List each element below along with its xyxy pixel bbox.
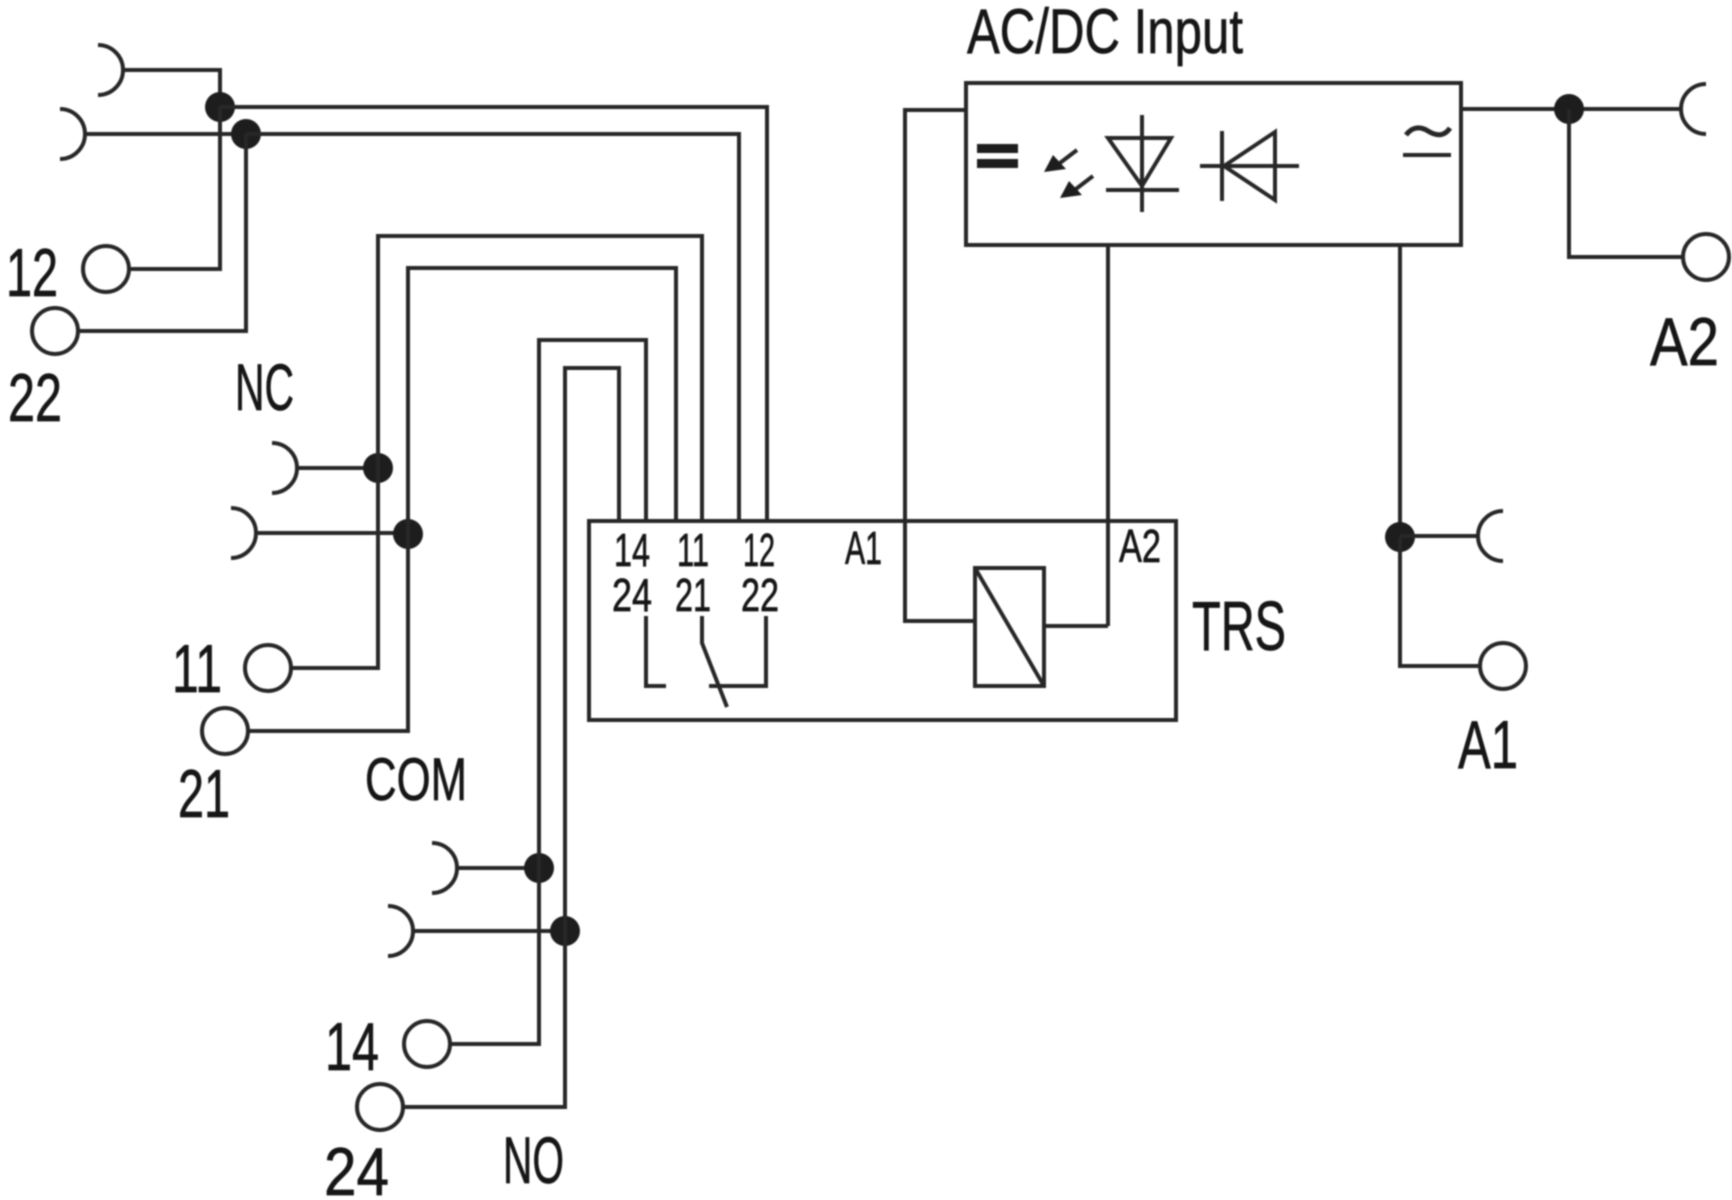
junction J8 bbox=[1385, 522, 1415, 552]
contact stub 24 bbox=[646, 616, 666, 686]
relay coil bbox=[975, 568, 1044, 686]
svg-text:COM: COM bbox=[365, 746, 467, 813]
wire K6 to junction J6 bbox=[412, 929, 558, 933]
wire K3 to junction J3 bbox=[296, 466, 371, 470]
relay module box TRS bbox=[589, 521, 1176, 720]
wire J2 to TRS pin 12 bbox=[246, 134, 739, 521]
terminal ring 24 bbox=[357, 1084, 403, 1130]
wire J1 to terminal 12 bbox=[130, 107, 220, 269]
terminal ring 21 bbox=[202, 708, 248, 754]
wire J6 to TRS pin 14 bbox=[565, 368, 619, 931]
diode D2 cathode bar bbox=[1220, 131, 1224, 201]
wire J5 to TRS pin 24 bbox=[539, 340, 646, 868]
wire K4 to junction J4 bbox=[255, 531, 401, 535]
clamp contact K7 (terminal A2 feed) bbox=[1681, 84, 1706, 134]
terminal ring A2 bbox=[1683, 234, 1729, 280]
svg-text:A1: A1 bbox=[1458, 707, 1518, 783]
junction J4 bbox=[393, 519, 423, 549]
clamp contact K2 (feed to terminal 22) bbox=[60, 109, 85, 159]
terminal ring 12 bbox=[83, 246, 129, 292]
clamp contact K5 (feed to terminal 14) bbox=[432, 843, 457, 893]
svg-text:NO: NO bbox=[503, 1123, 564, 1197]
clamp contact K6 (feed to terminal 24) bbox=[388, 906, 413, 956]
wire input box to A2 riser bbox=[1106, 245, 1110, 626]
wire J6 to terminal 24 bbox=[404, 931, 565, 1107]
junction J7 bbox=[1554, 94, 1584, 124]
AC symbol tilde bbox=[1406, 128, 1450, 135]
wire J3 to terminal 11 bbox=[291, 468, 378, 668]
svg-text:22: 22 bbox=[741, 569, 779, 621]
svg-text:14: 14 bbox=[325, 1009, 379, 1085]
svg-text:24: 24 bbox=[612, 569, 652, 621]
junction J2 bbox=[231, 119, 261, 149]
svg-text:AC/DC Input: AC/DC Input bbox=[967, 0, 1243, 67]
wire K1 to junction J1 bbox=[122, 70, 220, 100]
wire coil to A2 riser bbox=[1044, 624, 1108, 628]
terminal ring 11 bbox=[245, 645, 291, 691]
svg-text:22: 22 bbox=[8, 360, 62, 436]
input module box U1 bbox=[966, 83, 1461, 245]
svg-text:24: 24 bbox=[324, 1134, 389, 1200]
LED D1 cathode bar bbox=[1106, 188, 1179, 192]
wire input box to junction J8 bbox=[1398, 245, 1402, 537]
junction J3 bbox=[363, 453, 393, 483]
wire J3 to TRS pin 21 bbox=[378, 236, 702, 521]
svg-text:21: 21 bbox=[178, 756, 230, 832]
wire K5 to junction J5 bbox=[456, 866, 532, 870]
wire J7 to terminal A2 bbox=[1569, 109, 1682, 257]
wire J4 to terminal 21 bbox=[249, 534, 408, 731]
wire J2 to terminal 22 bbox=[79, 134, 246, 331]
diode D2 axis wire bbox=[1200, 164, 1299, 168]
terminal ring 22 bbox=[32, 308, 78, 354]
svg-text:A2: A2 bbox=[1119, 520, 1161, 572]
svg-text:A1: A1 bbox=[845, 522, 882, 574]
wire J8 to terminal A1 bbox=[1400, 537, 1478, 666]
wire K2 to junction J2 bbox=[84, 132, 239, 136]
svg-text:A2: A2 bbox=[1650, 304, 1719, 380]
DC symbol = bbox=[977, 144, 1018, 168]
terminal ring 14 bbox=[404, 1021, 450, 1067]
wire J1 to TRS pin 22 bbox=[220, 107, 767, 521]
optocoupler light arrow 2 bbox=[1060, 176, 1093, 198]
wire J8 to clamp K8 bbox=[1400, 534, 1477, 538]
wire J5 to terminal 14 bbox=[450, 868, 539, 1044]
terminal ring A1 bbox=[1480, 643, 1526, 689]
svg-text:TRS: TRS bbox=[1192, 587, 1286, 665]
clamp contact K4 (feed to terminal 21) bbox=[231, 508, 256, 558]
wire A1 pin to coil bbox=[905, 521, 975, 621]
optocoupler light arrow 1 bbox=[1044, 150, 1077, 172]
junction J5 bbox=[524, 853, 554, 883]
wire J4 to TRS pin 11 bbox=[408, 268, 676, 534]
contact stub 22 bbox=[709, 616, 766, 686]
clamp contact K3 (feed to terminal 11) bbox=[272, 443, 297, 493]
AC symbol underline bbox=[1403, 153, 1451, 157]
junction J1 bbox=[205, 92, 235, 122]
svg-text:12: 12 bbox=[6, 235, 58, 311]
clamp contact K1 (feed to terminal 12) bbox=[98, 45, 123, 95]
clamp contact K8 (terminal A1 feed) bbox=[1478, 511, 1503, 561]
contact stub 21 with lever bbox=[702, 616, 727, 707]
svg-text:NC: NC bbox=[235, 350, 294, 424]
LED D1 cathode line bbox=[1140, 115, 1144, 212]
diode D2 triangle bbox=[1224, 132, 1275, 200]
junction J6 bbox=[550, 916, 580, 946]
svg-text:11: 11 bbox=[172, 631, 222, 707]
svg-text:21: 21 bbox=[675, 569, 711, 621]
LED D1 triangle bbox=[1108, 138, 1171, 186]
wire input box to junction J7 bbox=[1461, 107, 1681, 111]
wire input box to A1 riser bbox=[905, 110, 975, 621]
